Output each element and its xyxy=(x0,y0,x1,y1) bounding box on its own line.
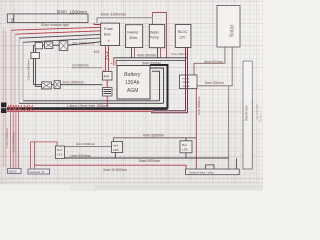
stub wire xyxy=(236,158,238,169)
left margin wire red A xyxy=(2,29,4,168)
strip light (roof LED strip) xyxy=(7,14,88,23)
solar wire 2 xyxy=(197,47,232,86)
battery 130Ah AGM xyxy=(117,66,150,100)
led feed wire mid xyxy=(114,138,197,142)
left drop wires xyxy=(10,105,12,169)
wire bus black 1 xyxy=(19,34,101,38)
lamp F xyxy=(54,81,60,89)
solar wire 1 xyxy=(194,47,225,76)
Ref LED stubs xyxy=(185,138,187,158)
bottom bus thin black 1 xyxy=(23,100,160,102)
left lamp riser pair xyxy=(33,45,35,84)
lamp row wire xyxy=(34,42,101,45)
LED box mid xyxy=(112,142,123,153)
bottom bus thick black xyxy=(7,107,168,110)
BLDC-controller through pair xyxy=(153,48,186,111)
inverter 300W xyxy=(126,25,143,48)
paper background xyxy=(0,0,263,191)
lamp E xyxy=(42,82,52,89)
wire bus to pumps y57.8 xyxy=(114,57,188,59)
dimmer box D xyxy=(31,52,40,58)
lamp bottom wire xyxy=(34,84,103,86)
Ref LED box xyxy=(180,141,192,153)
bridge wire xyxy=(206,165,215,169)
lamp switch A xyxy=(35,43,42,49)
wire solar branch down xyxy=(228,86,230,169)
battery nest cable 3 xyxy=(152,71,160,101)
leisure unit long box xyxy=(186,169,240,175)
wire switch to LED xyxy=(65,145,112,147)
slack crossing scribble xyxy=(8,105,33,111)
battery feed wires xyxy=(113,58,115,66)
bottom red wire xyxy=(35,165,186,169)
terminal blocks xyxy=(1,103,7,108)
switch panel box1 xyxy=(8,169,22,174)
bottom bus thin black 2 xyxy=(19,102,164,104)
water pump feed wire red xyxy=(153,13,167,58)
controller red feed down xyxy=(195,89,197,170)
wire strip light to fuse box (red) xyxy=(94,23,101,25)
photo tone overlay xyxy=(0,0,263,191)
fuse box U1 xyxy=(101,23,120,45)
inverter stubs xyxy=(131,48,133,58)
pump switch feed xyxy=(31,142,58,169)
fuse holder 2 xyxy=(103,88,113,97)
lamp C xyxy=(59,41,68,51)
pump switch box xyxy=(56,146,65,159)
fuse link wire xyxy=(106,80,108,88)
wire bus black 2 xyxy=(23,38,101,42)
wire bus red 2 xyxy=(15,31,101,34)
slack loop scribble xyxy=(106,52,109,62)
wardrobe tall box xyxy=(243,61,252,169)
wire bus red 1 xyxy=(11,27,101,30)
solar charge controller xyxy=(180,75,198,89)
BLDC fan xyxy=(175,25,191,48)
water pump xyxy=(149,25,164,48)
wire bus y60.4 xyxy=(116,59,185,61)
battery nest cable 2 xyxy=(150,68,164,103)
solar panel xyxy=(217,6,240,48)
paper bottom edge band xyxy=(0,183,263,191)
dimension 1m 500mm xyxy=(72,67,103,69)
bottom black wire xyxy=(65,157,229,159)
sockets box2 xyxy=(28,169,50,174)
dimension line 5mm 1000mm xyxy=(97,18,153,25)
fuse holder 1 xyxy=(103,72,113,81)
bottom bus red xyxy=(7,110,153,112)
fuse box stubs red xyxy=(105,46,107,72)
water pump stubs xyxy=(157,48,159,58)
lamp B xyxy=(45,42,53,49)
battery nest thick cable xyxy=(150,65,168,109)
left margin wire red B xyxy=(5,31,7,167)
